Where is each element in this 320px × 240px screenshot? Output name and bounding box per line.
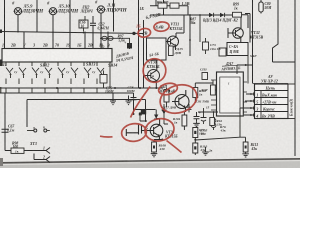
capacitor C81 symbol: [187, 104, 192, 112]
red pen circle around 2В: [137, 28, 151, 38]
transistor VT32 emitter arrow: [239, 36, 241, 38]
transistor VT30 emitter arrow: [152, 75, 154, 77]
connector header underline: [253, 83, 288, 85]
resistor R113 body: [243, 142, 248, 152]
wire horizontal y15: [150, 14, 233, 16]
lamp HL9: [14, 8, 23, 15]
wire tick x24 bus to box: [23, 32, 25, 49]
red pen tail bottom: [167, 141, 182, 153]
resistor R103 body: [193, 88, 198, 98]
red pen circle around 8,4В: [153, 21, 169, 32]
resistor R109 body top right: [210, 118, 215, 126]
switch column ticks between buses: [6, 88, 97, 93]
junction dot bus y99: [133, 99, 135, 101]
junction dot x190 y15: [189, 14, 191, 16]
diode VD13 bar: [213, 13, 215, 17]
small box left of center: [100, 75, 107, 84]
capacitor C66 stub: [84, 16, 86, 32]
wire vertical x200: [199, 15, 201, 42]
bottom left corner smudge: [0, 158, 3, 166]
connector XT3 pin2: [34, 154, 50, 163]
wire vertical x113.5 top: [113, 0, 115, 32]
resistor R105 body: [193, 128, 198, 138]
wire vertical x70 top: [69, 0, 71, 32]
resistor R110 inner band: [194, 146, 196, 149]
trimmer box СП3: [202, 73, 208, 80]
junction dot VT34 emitter: [161, 139, 163, 141]
small dark component 2,5: [141, 110, 146, 114]
connector XP4 arrow row3: [246, 107, 254, 110]
switch contact group 5: [58, 62, 65, 84]
wire x140 vertical mid: [140, 112, 146, 121]
IC DA7 box: [217, 72, 244, 116]
small cap boxes group bottom-left of VT32: [203, 38, 209, 54]
red pen circle around C78: [121, 122, 148, 142]
diode VD16 bar: [154, 118, 158, 120]
transistor VT33: [172, 90, 189, 112]
wire DA7 top pin to x252: [237, 65, 253, 74]
connector XP4 pin column divider: [260, 91, 262, 119]
diode VD17 triangle: [162, 110, 166, 114]
transistor VT32: [228, 17, 243, 42]
wire x145.5 vertical drop: [145, 100, 147, 122]
wire vertical x190 center: [189, 15, 191, 56]
diode VD16 triangle on collector line: [154, 115, 158, 119]
left edge smudge: [0, 87, 1, 93]
resistor R111 ground mid: [202, 147, 209, 155]
wire lamp HL10 drop: [52, 15, 54, 32]
resistor R107 body vertical: [211, 85, 216, 95]
wire x27 vertical drop: [26, 100, 28, 128]
electrolytic blob C71: [127, 43, 132, 49]
red pen swoosh VT30 to C78: [131, 87, 151, 118]
junction dot x145 y121: [145, 120, 147, 122]
wire tick x93 bus to box: [92, 32, 94, 49]
junction blob on bus: [132, 32, 135, 35]
switch contact group 6: [71, 62, 78, 84]
diode VD14 bar: [224, 13, 226, 17]
capacitor C69 symbol: [90, 16, 96, 32]
IC DA7 inner pin marks: [211, 80, 247, 112]
switch contact group 1: [6, 62, 13, 84]
dark blob x140 y114: [139, 113, 142, 116]
connector XP4 right rotated column: [288, 84, 295, 119]
transistor VT33 emitter arrow: [183, 105, 185, 107]
bus line y88: [0, 87, 163, 89]
IC DA7 label underline: [222, 65, 244, 66]
junction dot bus c66: [83, 32, 85, 34]
diode VD14 symbol on y15: [220, 13, 224, 17]
junction dot bus y88 c: [139, 87, 141, 89]
diode VD15 body: [169, 46, 174, 56]
junction dot bus y88 a: [56, 87, 58, 89]
ground symbol at x113: [110, 93, 116, 105]
transistor VT31: [164, 15, 185, 50]
IC DA7 inner frame: [220, 77, 240, 113]
switch contact group 3: [32, 62, 39, 84]
wire resistor tops to y83: [195, 80, 213, 103]
wire y109 horizontal short: [134, 110, 156, 115]
transistor VT30: [144, 60, 160, 88]
red pen loop around ЗАП note: [158, 82, 179, 97]
resistor R108 inner band: [153, 146, 155, 149]
connector XP4 arrow row2: [246, 100, 254, 103]
junction dot bus y88 b: [114, 87, 116, 89]
lamp HL10: [49, 8, 58, 15]
resistor R84 body: [158, 3, 167, 8]
wire vertical x143.5 center: [143, 20, 145, 88]
connector XP4 table frame: [255, 84, 289, 119]
wire y138 horizontal bottom right: [195, 137, 245, 142]
resistor R110 body: [193, 143, 198, 153]
resistor R104 wires: [183, 112, 185, 130]
connector XP4 arrow row4: [244, 114, 254, 117]
wire y112 horizontal: [198, 111, 218, 113]
bus line y93: [0, 92, 134, 94]
wire lamp HL9 drop: [17, 15, 19, 32]
resistor R110 wires: [194, 138, 196, 156]
resistor R99 body: [233, 12, 242, 17]
transistor VT34: [142, 119, 163, 140]
resistor R102 body: [164, 90, 169, 103]
wire vertical x37 top: [36, 0, 38, 32]
wire vertical x156 top short: [155, 0, 157, 6]
wire x248 vertical mid: [247, 56, 249, 84]
red pen dash left: [100, 135, 113, 138]
wire vertical x250 top: [245, 14, 250, 43]
red pen circle around VT33: [156, 80, 200, 117]
electrolytic blob C71 stub: [129, 38, 131, 49]
left edge ink blob: [0, 60, 3, 67]
block box ГБ-БА: [227, 43, 248, 56]
wire x240 table to bottom: [240, 101, 246, 137]
red pen circle around VT34: [143, 116, 176, 144]
left edge blob at bus: [0, 30, 2, 34]
resistor R113 ground: [242, 152, 249, 157]
wire tick x70 bus to box: [69, 32, 71, 49]
bottom band inner light line: [0, 161, 300, 165]
switch contact group 7: [84, 62, 91, 84]
wire x164 diode down: [164, 116, 168, 124]
capacitor C66 box: [79, 20, 88, 28]
bottom scanner band: [0, 159, 300, 168]
resistor R108 body below VT34: [152, 142, 157, 152]
connector arrow head row2: [251, 100, 254, 102]
wire horizontal y62 right: [273, 61, 296, 63]
switch contact group 2: [19, 62, 26, 84]
switch contact group 8: [97, 62, 104, 84]
wire vertical x252 top: [252, 0, 254, 84]
transistor VT31 emitter arrow: [174, 44, 176, 46]
red pen circle around VT30: [142, 57, 168, 84]
keyboard unit box: [2, 49, 112, 63]
connector arrow head row4: [251, 114, 254, 116]
capacitor C76 symbol on x133: [131, 93, 137, 114]
connector XP4 arrow row1: [246, 93, 254, 96]
junction dot x190 y40: [189, 39, 191, 41]
wire vertical x5 top: [4, 0, 6, 32]
wire VT34 collector up: [156, 110, 159, 119]
paper background: [0, 0, 300, 168]
paper grain overlay: [0, 0, 300, 168]
wire tick x85 bus to box: [84, 32, 86, 49]
junction dot R105 bottom: [194, 139, 196, 141]
small box stub to bus: [103, 71, 105, 89]
connector XP4 row lines: [255, 91, 289, 112]
wire tick x4.5 bus to box: [4, 32, 6, 49]
resistor R108 ground: [151, 152, 158, 157]
diode VD17 symbol: [162, 104, 167, 116]
connector XT3 pin1: [42, 148, 50, 154]
transistor VT34 emitter arrow: [158, 134, 160, 136]
wire vertical x295 right edge: [294, 0, 296, 156]
wire tick x101 bus to box: [100, 32, 102, 49]
connector arrow head row1: [251, 93, 254, 95]
capacitor C78 coupling symbol: [126, 125, 141, 137]
wire vertical x163.5 top: [163, 0, 165, 15]
fuse oval pair: [100, 36, 130, 40]
wire top bus horizontal y31.5: [0, 32, 144, 34]
bus line y99.5: [27, 99, 146, 101]
electrolytic cap plus lead: [201, 108, 207, 124]
capacitor C80 body: [259, 2, 263, 12]
terminal pair o-o: [27, 129, 50, 132]
resistor R104 body: [182, 115, 187, 126]
junction dot VT30 emitter on bus: [155, 87, 157, 89]
lamp HL11: [97, 6, 106, 13]
wire lamp HL11 drop: [100, 13, 102, 32]
connector arrow head row3: [251, 107, 254, 109]
junction dot y65: [245, 64, 247, 66]
junction dot x200 y15: [199, 14, 201, 16]
switch arrow tips row: [9, 73, 102, 75]
junction dot y112: [213, 111, 215, 113]
diode VD13 symbol on y15: [209, 13, 213, 17]
block box ДА6: [147, 38, 167, 60]
wire R84 R85 series: [150, 6, 188, 15]
ground under C79: [193, 122, 200, 127]
junction dot bus lamp3: [100, 32, 102, 34]
capacitor C67 symbol on x5: [2, 129, 9, 132]
junction dot bus lamp1: [17, 31, 19, 33]
wire vertical x278 top: [273, 0, 279, 62]
resistor R113 inner band: [245, 146, 247, 149]
wire vertical x110: [109, 62, 111, 88]
electrolytic cap 2 body: [211, 112, 216, 130]
junction dot bus lamp2: [52, 31, 54, 33]
capacitor C79 symbol: [194, 112, 200, 122]
pin numbers row above keyboard box: [2, 42, 110, 47]
resistor R105 inner band: [194, 131, 196, 134]
wire R99 right to x248: [242, 15, 249, 28]
resistor R102 stub: [166, 88, 168, 107]
resistor R98 body: [11, 148, 24, 153]
switch contact group 4: [45, 62, 52, 84]
wire tick x53 bus to box: [52, 32, 54, 49]
wire x5 vertical left column: [4, 93, 6, 151]
resistor R85 body: [170, 3, 179, 8]
capacitor C80 cylinder: [260, 0, 262, 14]
junction dot x133 y114: [133, 113, 135, 115]
wire VT34 emitter node: [154, 140, 162, 143]
ground symbol at x128: [126, 96, 132, 105]
wire tick x108 bus to box: [107, 32, 109, 49]
small box left of C=BA: [219, 48, 226, 56]
bottom band top dark line: [0, 159, 300, 163]
wire vertical x138.5 center: [138, 0, 140, 88]
wire R98 to connector: [5, 150, 42, 152]
